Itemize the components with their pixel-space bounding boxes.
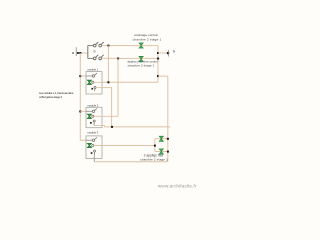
svg-text:chambre 2 étage 1: chambre 2 étage 1 [140, 158, 168, 162]
svg-text:module 1: module 1 [88, 68, 99, 72]
module 2 row1 switch circle [92, 110, 94, 112]
junction dot H6/V2 [107, 81, 109, 83]
module 2 row3 wire out [94, 125, 105, 127]
switch bottom row wire [88, 57, 94, 59]
wire V3 [117, 58, 119, 116]
junction dot H4 [167, 52, 169, 54]
svg-text:a: a [72, 51, 74, 55]
lamp L3 applique 1 [159, 136, 163, 141]
module 1 row2 wire out [94, 81, 102, 83]
junction dot H2/V2 [107, 45, 109, 47]
module 1 row1 wire [86, 75, 93, 77]
module 1 row3 black square [91, 88, 93, 90]
module 2 row3 contact circle [93, 120, 95, 122]
junction dot H7/V6 [111, 126, 113, 128]
junction dot V5 lamp3 [167, 138, 169, 140]
module 3 row1 switch circle [92, 139, 94, 141]
svg-text:n: n [173, 50, 175, 54]
module 3 row3 wire out [93, 155, 95, 162]
svg-text:chambre 2 étage 1: chambre 2 étage 1 [133, 37, 162, 41]
svg-text:b: b [94, 49, 96, 53]
module 2 row3 black square [90, 122, 92, 124]
wire H6 module1 out to V4 [102, 81, 158, 83]
module 1 row3 wire out [96, 87, 102, 89]
module 3 row1 switch lever [95, 137, 97, 139]
module 3 row3 contact stem [93, 152, 95, 155]
module 2 row1 switch lever [95, 109, 97, 111]
wire V5 right bus down [167, 76, 169, 162]
switch top row wire [88, 45, 94, 47]
wire H5 branch to V5 [158, 75, 168, 77]
junction dot V1 start [79, 52, 81, 54]
switch S4 lever [101, 55, 104, 58]
wire V4 right collector [157, 46, 159, 83]
wire H2 top lamp wire [102, 45, 158, 47]
module 3 row3 black square [91, 152, 93, 154]
module 3 row2 wire out H9 [94, 145, 155, 147]
switch S2 circle [99, 44, 102, 47]
svg-text:module 3: module 3 [88, 131, 99, 135]
wire H4 neutral stub [158, 52, 170, 54]
svg-text:www.archifacile.fr: www.archifacile.fr [158, 184, 197, 190]
module 1 box [86, 72, 102, 94]
module 2 box [86, 107, 102, 127]
lamp L1 eclairage central [139, 43, 143, 48]
module 1 green coil icon [87, 80, 91, 84]
wire H1 phase feed left [76, 52, 88, 54]
junction dot left rail H9 [154, 145, 156, 147]
switch S3 lever [96, 55, 99, 58]
wire V2 [107, 46, 109, 83]
terminal tick a [75, 47, 77, 56]
switch S2 lever [101, 42, 104, 45]
module 2 row2 wire out [94, 115, 118, 117]
wire H3 bottom lamp wire [102, 57, 158, 59]
junction dot V4 H5 [157, 75, 159, 77]
module 1 row3 contact circle [94, 86, 96, 88]
junction dot V4 n-stub [157, 52, 159, 54]
junction dot H3/V3 [117, 58, 119, 60]
wire H7 [105, 126, 171, 128]
module 3 row3 contact circle [94, 150, 96, 152]
module 1 row2 contact circle [92, 81, 94, 83]
module 1 row1 switch circle [92, 75, 94, 77]
lamp L4 applique 2 [159, 149, 163, 154]
junction dot V1 module2 [79, 110, 81, 112]
switch S1 circle [93, 44, 96, 47]
module 2 green coil icon [87, 114, 91, 118]
lamp L2 applique couloir [139, 56, 143, 61]
switch unit bar [87, 45, 89, 58]
module 3 row1 wire [86, 139, 93, 141]
bottom lamp unit left rail [154, 139, 156, 152]
wire stub module1 input [80, 75, 86, 77]
svg-text:chambre 2 étage 1: chambre 2 étage 1 [128, 63, 155, 67]
module 3 box [86, 136, 102, 159]
junction dot V5 lamp4 [167, 151, 169, 153]
wire V1 left bus down to modules [80, 53, 86, 140]
junction dot V4 lamp2 [157, 58, 159, 60]
lamp L4 wire [155, 151, 168, 153]
switch S1 lever [96, 42, 99, 45]
module 3 green coil icon [87, 143, 91, 147]
module 1 row3 contact stem [94, 88, 96, 91]
svg-text:module 2: module 2 [88, 103, 99, 107]
module 2 row2 contact circle [92, 115, 94, 117]
wire V6 module1 row3 drop [102, 88, 112, 127]
module 3 row2 contact circle [92, 144, 94, 146]
switch S4 circle [99, 57, 102, 60]
wire stub module2 input [80, 110, 86, 112]
svg-text:coffret gaines étage 2: coffret gaines étage 2 [39, 95, 63, 99]
junction dot on H1 [77, 52, 79, 54]
switch S3 circle [93, 57, 96, 60]
module 2 row3 contact stem [93, 122, 95, 125]
terminal tick n [168, 50, 170, 57]
lamp L3 wire [155, 138, 168, 140]
module 2 row1 wire [86, 110, 93, 112]
junction dot V1 module1 [79, 75, 81, 77]
module 1 row1 switch lever [95, 73, 97, 75]
wire H8 [94, 161, 168, 163]
